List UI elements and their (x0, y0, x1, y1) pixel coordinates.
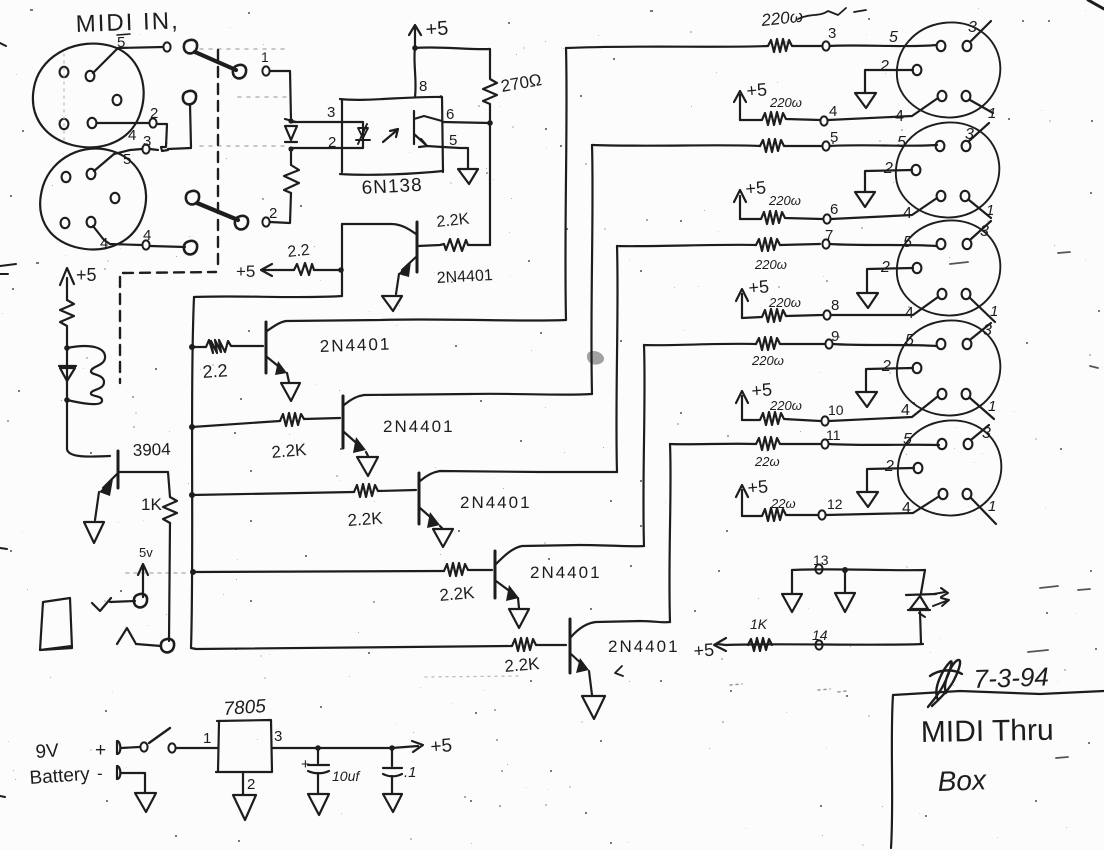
label +5 (LED ckt) (693, 640, 715, 661)
label 220 (row3 script) (754, 257, 787, 272)
label 14 (812, 627, 828, 643)
label 4 (contact) (143, 227, 151, 244)
J7 pin3 slash (972, 425, 989, 439)
J4 pin 3 (962, 141, 971, 151)
wire LED to bottom (920, 612, 921, 643)
svg-text:6N138: 6N138 (361, 175, 423, 199)
faint dots bottom left of title (730, 684, 846, 692)
J4 pin 4 (937, 191, 946, 201)
svg-text:2.2: 2.2 (287, 242, 311, 261)
J7 pin 5 (938, 439, 947, 449)
svg-text:5: 5 (889, 29, 898, 46)
svg-text:Battery: Battery (29, 764, 91, 789)
label +5 (row2) (745, 177, 767, 199)
transistor Q5 2N4401 (494, 551, 497, 598)
label + (C1) (301, 756, 310, 773)
LED D3 triangle (908, 596, 930, 610)
+5 arrow (row2 pullup) (734, 190, 746, 219)
wire right stem to LED D3 (921, 570, 925, 593)
wire 7805 out (272, 747, 318, 749)
svg-text:+5: +5 (693, 640, 715, 661)
J2 pin (bottom-left) (61, 218, 70, 228)
junction dot (LED top) (288, 118, 293, 123)
label 1 (J7) (988, 498, 996, 515)
label 1 (J6) (988, 398, 996, 415)
label 2 (lower contact) (269, 205, 277, 222)
diode D2 (clamp) (59, 366, 76, 381)
label 5 (J2) (123, 151, 131, 168)
label pin 2 (7805) (247, 776, 255, 793)
svg-text:2.2: 2.2 (202, 360, 228, 382)
J3 pin 1 (962, 91, 971, 101)
wire bus to R9 (192, 492, 354, 495)
connector J5 (MIDI THRU 3) (897, 220, 1000, 315)
svg-text:9V: 9V (35, 740, 60, 763)
ground (Q6 emitter) (84, 522, 104, 543)
wire Q1 collector to bus (194, 296, 342, 297)
U1 internal light arrow (383, 129, 398, 142)
label 6 (contact) (830, 201, 838, 218)
svg-text:4: 4 (902, 500, 911, 517)
J2 pin 4 (87, 217, 96, 227)
ground (J7) (857, 492, 878, 507)
svg-text:4: 4 (895, 108, 904, 125)
label 2 (J3) (879, 58, 889, 75)
ground wire (J7 pin2) (867, 468, 914, 491)
Q2 collector wire to line A (267, 319, 566, 331)
wire row5 signal (670, 443, 756, 446)
wire pin 2 (291, 147, 342, 149)
ground wire (J3 pin2) (865, 70, 913, 92)
arrow 5v (138, 564, 148, 597)
svg-text:+5: +5 (425, 17, 449, 41)
inductor L1 (coil) (67, 346, 105, 404)
J7 pin 2 (914, 463, 923, 473)
contact (power switch throw) (168, 743, 175, 752)
faint dotted left of bus stage4 (126, 572, 188, 574)
wire to unused throw (150, 246, 185, 247)
label +5 (left) (76, 265, 97, 285)
svg-text:-: - (97, 764, 103, 783)
J3 pin 4 (938, 91, 947, 101)
wire J2 pin4 out (93, 226, 141, 245)
svg-text:2: 2 (883, 160, 893, 177)
label 7805 (223, 696, 267, 720)
svg-text:+5: +5 (746, 79, 768, 101)
capacitor C2 .1 lead (391, 748, 393, 766)
connector J2 (second MIDI IN DIN jack) (40, 148, 146, 249)
label 2.2K (R8) (271, 440, 308, 462)
J1 pin 5 (86, 71, 95, 81)
svg-text:6: 6 (446, 106, 454, 123)
label 1 (J5) (990, 303, 998, 320)
J4 pin3 slash (969, 123, 989, 141)
label 4 (J1 area) (0, 0, 1, 1)
junction dot (C1 node) (315, 745, 321, 751)
resistor R8 2.2K (Q3 base) (280, 413, 340, 426)
wire riser E (stage5 to row5) (669, 444, 670, 622)
wire row3 to J5 pin5 (830, 244, 936, 246)
contact (switch S1 pole) (184, 40, 197, 54)
wire riser D (stage4 to row4) (643, 345, 644, 546)
J2 pin (center) (111, 193, 120, 203)
ground (J3) (855, 93, 876, 108)
label 5 (contact row2) (830, 129, 838, 146)
svg-text:8: 8 (831, 297, 839, 314)
+5 arrow (row4 pullup) (736, 391, 748, 420)
label pin 6 (446, 106, 454, 123)
ground (J5) (857, 293, 878, 308)
ground (pin 5) (458, 169, 478, 184)
Q3 emitter stem (366, 452, 368, 456)
arrow +5 left (LED ckt) (714, 638, 726, 651)
J7 pin 4 (939, 489, 948, 499)
svg-text:14: 14 (812, 627, 828, 643)
svg-text:1: 1 (261, 49, 269, 65)
J6 pin 1 (962, 389, 971, 399)
jack lever check (92, 598, 135, 611)
ground wire (J4 pin2) (865, 170, 912, 191)
svg-text:7-3-94: 7-3-94 (973, 661, 1049, 694)
Q7 emitter stem (589, 671, 592, 695)
svg-text:7: 7 (825, 227, 833, 244)
connector J7 (MIDI THRU 5) (898, 420, 1001, 515)
wire row2 to J4 pin5 (830, 145, 937, 146)
label 3 (J7) (982, 425, 991, 442)
svg-text:11: 11 (826, 427, 841, 443)
ground (7805) (233, 795, 256, 820)
label 2.2K (R3) (436, 211, 471, 231)
svg-text:1: 1 (988, 398, 996, 415)
svg-text:3904: 3904 (132, 440, 170, 460)
contact (pin2 wire) (149, 118, 156, 127)
svg-text:2N4401: 2N4401 (383, 417, 455, 436)
wire Q6 base right (119, 472, 170, 497)
contact 11 (row5) (821, 439, 828, 448)
svg-text:Box: Box (937, 764, 987, 797)
battery + terminal (117, 741, 120, 754)
junction dot (Q1 collector node) (338, 267, 344, 273)
C2 lower lead (391, 776, 393, 793)
+5 arrow (row3 pullup) (736, 289, 748, 318)
junction dot (+5 node) (412, 45, 418, 51)
resistor R15 220 (row4) (756, 337, 824, 350)
wire S2 throw down to net B (190, 104, 191, 147)
wire to J3 pin4 (828, 98, 938, 120)
power switch SW1 lever (149, 728, 170, 743)
ground (Q3) (357, 457, 378, 476)
svg-text:22ω: 22ω (754, 454, 780, 469)
label 220 (row2 pullup script) (768, 193, 801, 208)
contact 8 (row3 pullup) (823, 310, 830, 319)
svg-text:2N4401: 2N4401 (319, 335, 391, 356)
label 2 (J4) (883, 160, 893, 177)
connector J3 (MIDI THRU 1) (897, 22, 1000, 117)
svg-text:2.2K: 2.2K (347, 509, 384, 530)
svg-text:3: 3 (982, 425, 991, 442)
label 4 (J3) (895, 108, 904, 125)
capacitor C1 plates (308, 765, 329, 773)
svg-text:220ω: 220ω (751, 353, 784, 368)
label 1K (R6) (141, 495, 162, 514)
wire to +5 arrow (392, 741, 423, 752)
label + (battery) (95, 740, 106, 761)
dashed block outline vertical x120 (119, 277, 121, 383)
contact upper (S2 throw) (183, 91, 196, 105)
ground (battery -) (135, 793, 156, 812)
J5 pin 4 (938, 289, 947, 299)
junction dot (LED bottom) (288, 146, 293, 151)
wire J1 pin5 to switch (93, 47, 163, 73)
contact 12 (row5 pullup) (818, 510, 825, 519)
ground (C1) (308, 794, 329, 815)
svg-text:220ω: 220ω (754, 257, 787, 272)
ground (J6) (856, 392, 877, 407)
svg-text:5: 5 (123, 151, 131, 168)
wire +5 node to R2 top (415, 47, 490, 49)
label 1K (R22) (750, 616, 768, 632)
wire J1 pin2 to contact column (97, 122, 149, 124)
wire row3 signal (617, 245, 756, 246)
scan mark top-right corner (1088, 0, 1104, 9)
label +5 (top) (425, 17, 449, 41)
wire to J6 pin4 (829, 397, 937, 421)
svg-text:+5: +5 (430, 735, 453, 758)
wire riser A (stage1 to row1) (565, 48, 566, 320)
resistor R20 220 (J6 pin4) (742, 412, 820, 425)
contact 7 (row3) (822, 239, 829, 248)
wire R6 down to jack contact (169, 523, 170, 641)
faint erased line y97 (238, 96, 289, 98)
junction dot (C2 node) (389, 745, 395, 751)
wire +5 node down to pin 8 (414, 48, 415, 97)
label +5 (row5) (747, 476, 769, 498)
title block border left (891, 695, 893, 848)
J5 pin1 slash (970, 298, 995, 322)
label - (battery) (97, 764, 103, 783)
J6 pin3 slash (971, 323, 991, 339)
label 11 (contact row5) (826, 427, 841, 443)
wire J2 pin5 up to net B (94, 149, 142, 171)
power +5 arrow (top) (409, 25, 421, 48)
resistor R21 220 (J7 pin4) (742, 508, 818, 521)
svg-text:2.2K: 2.2K (271, 440, 308, 462)
label 220 (row4 script) (751, 353, 784, 368)
wire left stem (791, 570, 793, 593)
label 7 (contact row3) (825, 227, 833, 244)
label 9V Battery (29, 740, 91, 789)
svg-text:3: 3 (968, 19, 977, 36)
svg-text:3: 3 (983, 322, 992, 339)
J3 pin3 slash (971, 21, 991, 41)
contact 4 (row1 pullup) (820, 116, 827, 125)
svg-text:+5: +5 (76, 265, 97, 285)
label 2N4401 (Q2) (319, 335, 391, 356)
label 4 (J4) (903, 205, 912, 222)
wire 7805 gnd (242, 772, 244, 794)
faint dotted row above PSU (425, 676, 520, 677)
LED D3 cathode bar (906, 594, 936, 595)
transistor Q7 2N4401 (569, 619, 572, 673)
battery - terminal (117, 766, 120, 779)
label 10 (contact) (828, 402, 844, 418)
Q5 collector wire to line D (496, 545, 644, 564)
svg-text:.1: .1 (404, 764, 417, 781)
label 3 (J3) (968, 19, 977, 36)
label 220 (row1 pullup script) (769, 95, 802, 110)
label +5 (collector feed) (236, 262, 255, 281)
svg-text:12: 12 (827, 496, 843, 512)
wire pin 5 to ground (443, 147, 468, 168)
Q3 emitter with arrow (344, 432, 362, 448)
label pin 2 (328, 134, 336, 151)
wire + to switch (121, 747, 139, 748)
label 1 (J3) (988, 105, 996, 122)
label 270ohm (499, 70, 543, 96)
label 9 (contact row4) (831, 328, 839, 345)
resistor R14 220 (row3) (756, 238, 820, 251)
junction dot (opto out node) (487, 120, 493, 126)
J6 pin1 slash (970, 398, 994, 419)
J3 pin 3 (963, 41, 972, 51)
transistor Q1 2N4401 (416, 222, 419, 272)
svg-text:3: 3 (965, 126, 974, 143)
Q2 emitter stem (287, 373, 289, 382)
Q4 emitter with arrow (420, 508, 436, 522)
dashed block outline horizontal y273 (123, 272, 216, 273)
switch S2 lever (197, 203, 238, 220)
svg-text:5v: 5v (139, 545, 153, 560)
svg-text:220ω: 220ω (769, 95, 802, 110)
wire row4 signal (644, 344, 756, 345)
Q4 collector wire to line C (420, 471, 617, 481)
wire row1 signal (566, 46, 768, 48)
J2 pin (top-left) (62, 172, 71, 182)
svg-text:2N4401: 2N4401 (530, 563, 602, 582)
contact after lever (262, 66, 269, 75)
svg-text:1: 1 (986, 202, 994, 219)
contact 13 (815, 564, 822, 573)
wire C1 node to C2 node (318, 747, 392, 749)
svg-text:+5: +5 (747, 476, 769, 498)
label +5 (row1) (746, 79, 768, 101)
wire Q1 collector vertical (341, 224, 343, 296)
svg-text:+5: +5 (748, 276, 770, 298)
C1 lower lead (317, 773, 319, 793)
svg-text:1K: 1K (141, 495, 162, 514)
svg-text:4: 4 (100, 235, 108, 252)
transistor Q2 2N4401 (265, 322, 268, 373)
svg-text:9: 9 (831, 328, 839, 345)
U1 internal input frame (342, 122, 363, 148)
wire row1 to J3 pin5 (830, 45, 936, 46)
svg-text:2: 2 (247, 776, 255, 793)
junction dot bus stage1 (189, 344, 195, 350)
svg-text:220ω: 220ω (769, 398, 802, 413)
svg-text:1: 1 (988, 105, 996, 122)
label pin 5 (jack J1) (117, 34, 125, 51)
wire contact down to net B (157, 124, 168, 151)
svg-text:8: 8 (419, 78, 427, 95)
Q2 emitter with arrow (267, 357, 283, 370)
contact 5 (row2) (822, 141, 829, 150)
J7 pin 3 (964, 439, 973, 449)
svg-text:10: 10 (828, 402, 844, 418)
Q6 emitter with arrow (103, 474, 117, 488)
wire to J5 pin4 (831, 297, 938, 315)
faint dotted inside J1 (63, 54, 65, 140)
wire down to Q6 (67, 348, 110, 457)
svg-text:7805: 7805 (223, 696, 267, 720)
J5 pin 3 (963, 239, 972, 249)
signature scribble (928, 660, 962, 707)
resistor R22 1K (LED) (748, 638, 772, 651)
wire net B across to x191 (150, 149, 158, 150)
svg-text:2.2K: 2.2K (439, 583, 476, 605)
label 5 (J3) (889, 29, 898, 46)
svg-text:5: 5 (903, 431, 912, 448)
wire riser C (stage3 to row3) (616, 246, 617, 472)
LED D1 cathode bar (285, 141, 297, 143)
svg-text:3: 3 (828, 25, 836, 42)
svg-text:+: + (95, 740, 106, 761)
J7 pin 1 (963, 489, 972, 499)
label 1 (contact) (261, 49, 269, 65)
resistor R7 2.2 (Q2 base) (192, 340, 263, 353)
contact (S2 lever end) (235, 216, 248, 230)
junction dot bus stage4 (190, 569, 196, 575)
label 5 (J6) (905, 332, 914, 349)
resistor R1 (opto series, vertical) (284, 151, 299, 193)
Q5 emitter with arrow (496, 581, 515, 595)
resistor R9 2.2K (Q4 base) (354, 484, 416, 497)
ground (Q2) (281, 383, 300, 401)
J4 pin 2 (912, 165, 921, 175)
label 2N4401 (Q7) (608, 637, 680, 656)
label 2N4401 (Q3) (383, 417, 455, 436)
resistor R10 2.2K (Q5 base) (444, 563, 492, 576)
wire - to ground (121, 773, 145, 792)
svg-text:1: 1 (988, 498, 996, 515)
label 2N4401 (Q4) (460, 493, 532, 512)
label pin 3 (7805) (274, 728, 282, 745)
svg-text:2N4401: 2N4401 (608, 637, 680, 656)
label 2N4401 (Q1) (436, 267, 493, 287)
label 5 (J4) (897, 134, 906, 151)
Q1 emitter with arrow (402, 257, 416, 270)
label 3 (contact) (143, 133, 151, 150)
svg-text:4: 4 (829, 103, 837, 120)
resistor R16 220 (row5) (756, 437, 820, 450)
svg-text:10uf: 10uf (332, 768, 361, 784)
ground (Q5) (509, 609, 529, 628)
J6 pin 5 (937, 339, 946, 349)
wire to resistor R1 bottom (270, 193, 291, 223)
wire LED circuit bottom (726, 644, 923, 645)
wire mid stem (844, 570, 846, 592)
tick mark (Q7) (615, 666, 623, 676)
label 2 (J1 pin2 contact) (150, 105, 158, 122)
switch S1 lever (195, 52, 236, 70)
svg-text:13: 13 (813, 552, 829, 568)
resistor R11 2.2K (Q7 base) (512, 638, 566, 651)
J4 pin 5 (936, 141, 945, 151)
connector J6 (MIDI THRU 4) (897, 320, 1000, 415)
Q3 collector wire to line B (344, 394, 592, 405)
J3 pin 2 (913, 65, 922, 75)
label 3904 (132, 440, 170, 460)
contact 3 (row1) (822, 41, 829, 50)
